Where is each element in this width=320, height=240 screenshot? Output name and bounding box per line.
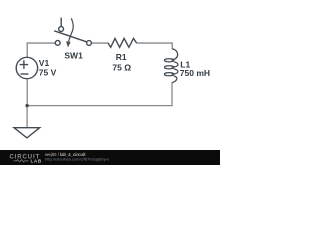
junction node dot xyxy=(25,104,28,107)
SW1 top throw stub xyxy=(60,18,62,27)
wire R1 right to top-right corner down to L1 top xyxy=(136,43,172,49)
switch SW1 xyxy=(54,18,91,46)
svg-text:LAB: LAB xyxy=(31,159,42,164)
wire L1 bottom down to bottom rail xyxy=(171,83,173,106)
SW1 left terminal circle xyxy=(55,41,60,46)
ground xyxy=(14,128,40,138)
wire bottom rail xyxy=(27,105,172,107)
L1 spine xyxy=(172,49,178,83)
SW1 right terminal circle xyxy=(87,41,92,46)
SW1 actuation arrow xyxy=(69,18,74,41)
L1 turn ellipse 3 xyxy=(164,73,173,76)
L1 turn ellipse 1 xyxy=(164,59,173,62)
svg-text:R1: R1 xyxy=(116,52,127,62)
footer logo zigzag xyxy=(14,160,29,162)
wire SW1 right terminal to R1 xyxy=(92,42,109,44)
wire V1 bottom to rail xyxy=(26,80,28,106)
svg-text:750 mH: 750 mH xyxy=(180,68,210,78)
wire ground stub xyxy=(26,106,28,128)
svg-text:SW1: SW1 xyxy=(64,51,83,61)
voltage source V1 xyxy=(16,57,37,78)
SW1 arrow head xyxy=(66,41,71,47)
footer bar xyxy=(0,150,220,165)
inductor L1 xyxy=(164,49,178,83)
resistor R1 xyxy=(108,38,137,47)
svg-text:75 V: 75 V xyxy=(39,68,57,78)
svg-text:http://circuitlab.com/c/f67hGq: http://circuitlab.com/c/f67hGqqbbym xyxy=(45,156,109,161)
wire top-left from V1 top to SW1 left terminal xyxy=(27,43,55,57)
svg-text:V1: V1 xyxy=(39,58,50,68)
L1 turn ellipse 2 xyxy=(164,66,173,69)
SW1 top terminal circle xyxy=(59,27,64,32)
svg-text:75 Ω: 75 Ω xyxy=(112,63,131,73)
SW1 arm xyxy=(54,31,86,42)
